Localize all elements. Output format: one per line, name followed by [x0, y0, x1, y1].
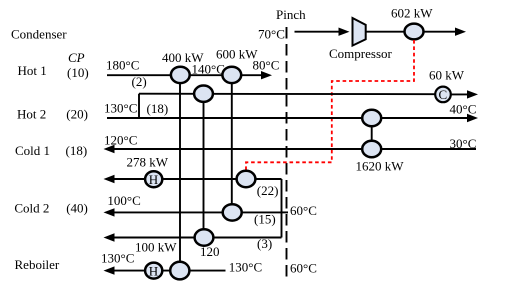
exchanger 600 cold: [223, 204, 242, 220]
svg-text:(40): (40): [66, 200, 88, 215]
svg-text:100°C: 100°C: [107, 193, 140, 208]
svg-text:(10): (10): [67, 65, 89, 80]
wire cold2 junction: [281, 179, 283, 238]
svg-text:130°C: 130°C: [229, 260, 262, 275]
svg-text:Pinch: Pinch: [276, 7, 306, 22]
compressor symbol: [353, 18, 366, 46]
svg-text:Condenser: Condenser: [11, 27, 67, 42]
match 600 kW riser: [231, 75, 233, 212]
svg-text:600 kW: 600 kW: [216, 47, 258, 62]
pinch line (dashed vertical): [286, 27, 288, 282]
exchanger 1620 cold1: [362, 141, 381, 158]
svg-text:(3): (3): [257, 236, 272, 251]
wire cold2 inlet stub: [282, 211, 289, 213]
exchanger b2 match: [194, 86, 213, 102]
svg-text:70°C: 70°C: [258, 27, 285, 42]
wire hot2: [107, 117, 468, 119]
svg-text:H: H: [149, 172, 158, 187]
heater H2: [145, 263, 162, 279]
match 400 kW riser: [179, 75, 181, 270]
svg-text:60°C: 60°C: [290, 261, 317, 276]
exchanger 120: [195, 229, 214, 245]
svg-text:140°C: 140°C: [192, 61, 225, 76]
svg-text:Hot 2: Hot 2: [17, 106, 46, 121]
exchanger 400 kW: [171, 67, 190, 83]
svg-text:60°C: 60°C: [290, 203, 317, 218]
svg-text:Cold 2: Cold 2: [14, 200, 49, 215]
svg-text:H: H: [149, 263, 158, 278]
svg-text:100 kW: 100 kW: [135, 239, 177, 254]
svg-text:(15): (15): [254, 212, 276, 227]
svg-text:(18): (18): [66, 143, 88, 158]
svg-text:(18): (18): [147, 101, 169, 116]
exchanger 400 cold: [170, 262, 189, 280]
svg-text:120°C: 120°C: [104, 133, 137, 148]
match 120 riser: [203, 94, 205, 238]
exchanger 1620 hot2: [362, 110, 381, 127]
match 1620 kW riser: [371, 118, 373, 149]
cooler C: [435, 87, 451, 103]
svg-text:(22): (22): [257, 183, 279, 198]
wire cold1: [110, 148, 476, 150]
wire hot1: [107, 74, 262, 76]
svg-text:130°C: 130°C: [104, 101, 137, 116]
svg-text:Compressor: Compressor: [329, 46, 393, 61]
svg-text:120: 120: [200, 244, 220, 259]
wire compressor inlet: [295, 31, 341, 33]
svg-text:60 kW: 60 kW: [429, 67, 465, 82]
svg-text:130°C: 130°C: [101, 251, 134, 266]
wire hot2 split riser: [138, 94, 140, 118]
svg-text:602 kW: 602 kW: [391, 6, 433, 21]
wire hot2 branch (2): [139, 93, 436, 96]
svg-text:180°C: 180°C: [106, 58, 139, 73]
wire reboiler stream: [110, 270, 226, 272]
heater H1: [145, 171, 162, 187]
wire compressor outlet: [366, 31, 404, 33]
exchanger (22): [237, 171, 256, 187]
svg-text:CP: CP: [68, 50, 85, 65]
svg-text:Reboiler: Reboiler: [15, 257, 60, 272]
svg-text:C: C: [439, 87, 448, 102]
red recovery link (dashed): [246, 40, 414, 170]
wire cold2 branch (15): [110, 211, 282, 213]
exchanger 602 kW: [405, 24, 424, 40]
wire cold2 branch (22): [110, 178, 282, 180]
svg-text:30°C: 30°C: [450, 136, 477, 151]
svg-text:Cold 1: Cold 1: [15, 143, 50, 158]
svg-text:278 kW: 278 kW: [127, 155, 169, 170]
svg-text:40°C: 40°C: [450, 102, 477, 117]
wire cold2 branch (3): [110, 237, 282, 239]
svg-text:1620 kW: 1620 kW: [356, 159, 405, 174]
svg-text:Hot 1: Hot 1: [18, 63, 47, 78]
svg-text:(2): (2): [132, 74, 147, 89]
exchanger 600 kW: [222, 67, 241, 83]
svg-text:(20): (20): [66, 106, 88, 121]
